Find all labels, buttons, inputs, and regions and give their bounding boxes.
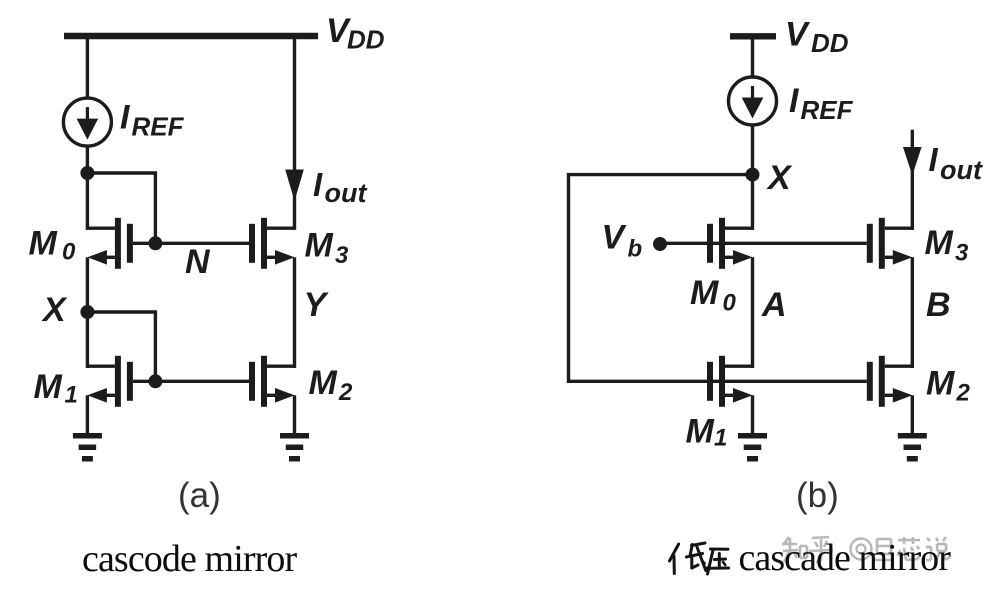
node label X (a) (41, 291, 68, 329)
svg-text:3: 3 (335, 242, 349, 269)
current source IREF (b) (729, 77, 777, 125)
svg-text:M: M (34, 368, 63, 406)
label M1 (34, 368, 78, 409)
watermark zhihu (782, 537, 950, 562)
wire rail to IREF (a) (86, 36, 89, 98)
arrow Iout (a) (285, 170, 304, 202)
svg-text:M: M (309, 364, 338, 402)
caption CJK diya (b) (670, 543, 729, 574)
svg-text:REF: REF (801, 95, 854, 125)
label M2 (b) (926, 365, 971, 407)
value label IREF (a) (120, 99, 185, 142)
wire X to M1 drain (a) (86, 312, 89, 368)
transistor M0 (b) (707, 218, 753, 269)
svg-text:V: V (785, 16, 811, 54)
junction dot N (a) (148, 236, 162, 250)
transistor M2 (249, 356, 295, 407)
current source IREF (a) (63, 98, 111, 146)
label M0 (b) (690, 274, 737, 317)
svg-text:I: I (313, 166, 323, 203)
power stub VDD (b) (730, 33, 776, 39)
node label Y (a) (304, 286, 330, 324)
svg-text:M: M (29, 225, 58, 263)
svg-text:I: I (120, 99, 131, 137)
wire X feedback loop to M1 M2 gates (b) (569, 175, 867, 382)
svg-text:0: 0 (62, 239, 76, 266)
arrow Iout (b) (903, 147, 922, 176)
wire X to M0 drain (b) (751, 175, 754, 230)
wire Iout to M3 drain (b) (911, 130, 914, 230)
caption (b) (796, 476, 839, 515)
svg-text:0: 0 (723, 290, 737, 317)
wire M1 source to ground (b) (751, 395, 754, 434)
caption cascade mirror (b) (739, 537, 952, 579)
svg-text:DD: DD (811, 28, 849, 58)
transistor M0 (87, 218, 132, 269)
wire VDD to IREF (b) (751, 36, 754, 78)
svg-text:V: V (602, 219, 628, 257)
svg-text:M: M (690, 274, 719, 312)
net label VDD (a) (326, 12, 385, 55)
svg-text:cascode mirror: cascode mirror (82, 538, 297, 580)
wire M0 source to X (a) (86, 257, 89, 313)
svg-text:Y: Y (304, 286, 330, 324)
wire M2 source to ground (a) (293, 395, 296, 434)
gate wire Vb to M0 M3 gates (b) (660, 242, 867, 245)
svg-text:X: X (766, 159, 793, 197)
ground under M2 (a) (280, 433, 309, 462)
ground under M1 (a) (73, 433, 102, 462)
junction dot below IREF (a) (80, 166, 94, 180)
svg-text:out: out (940, 155, 983, 185)
node X dot (a) (80, 305, 94, 319)
ground under M1 (b) (738, 433, 767, 462)
label Iout (a) (313, 166, 367, 208)
node X dot (b) (746, 168, 760, 182)
value label IREF (b) (789, 82, 854, 125)
label M3 (b) (925, 224, 970, 267)
wire diode-connect loop M0 gate (a) (87, 173, 155, 243)
svg-text:1: 1 (65, 382, 78, 409)
label M3 (305, 227, 350, 270)
wire X to M1 gate loop (a) (87, 312, 155, 381)
svg-text:M: M (925, 224, 954, 262)
svg-text:A: A (761, 286, 787, 324)
node label A (b) (761, 286, 787, 324)
svg-text:I: I (929, 141, 939, 178)
svg-text:(b): (b) (796, 476, 839, 515)
wire M3 source to M2 drain node Y (a) (293, 257, 296, 368)
label M2 (309, 364, 354, 406)
transistor M1 (b) (707, 356, 753, 407)
svg-text:I: I (789, 82, 800, 120)
transistor M1 (87, 356, 132, 407)
gate wire M1-M2 (a) (133, 380, 249, 383)
wire M3 source to M2 drain node B (b) (911, 257, 914, 368)
node label B (b) (926, 286, 951, 324)
svg-text:X: X (41, 291, 68, 329)
svg-text:B: B (926, 286, 951, 324)
wire M1 source to ground (a) (86, 395, 89, 434)
svg-text:3: 3 (955, 240, 969, 267)
wire IREF to node (a) (86, 146, 89, 175)
wire VDD to M3 drain with Iout (a) (293, 36, 296, 230)
svg-text:M: M (926, 365, 955, 403)
label Iout (b) (929, 141, 983, 185)
terminal dot Vb (b) (653, 237, 667, 251)
net label VDD (b) (785, 16, 849, 59)
wire M2 source to ground (b) (911, 395, 914, 434)
wire IREF to X (b) (751, 125, 754, 176)
svg-text:M: M (305, 227, 334, 265)
svg-text:DD: DD (347, 25, 385, 55)
wire node to M0 drain (a) (86, 173, 89, 230)
svg-text:REF: REF (132, 112, 185, 142)
svg-text:N: N (185, 243, 211, 281)
node label N (a) (185, 243, 211, 281)
svg-text:M: M (686, 413, 715, 451)
label M0 (29, 225, 77, 266)
ground under M2 (b) (898, 433, 927, 462)
svg-text:(a): (a) (178, 476, 221, 515)
transistor M3 (249, 218, 295, 269)
power rail VDD (a) (64, 33, 318, 39)
node label X (b) (766, 159, 793, 197)
svg-text:2: 2 (956, 380, 971, 407)
svg-text:1: 1 (714, 425, 727, 452)
gate wire node N (a) (133, 242, 249, 245)
caption cascode mirror (a) (82, 538, 297, 580)
svg-text:b: b (628, 236, 643, 263)
transistor M3 (b) (867, 218, 913, 269)
svg-text:cascade mirror: cascade mirror (739, 537, 952, 579)
bias label Vb (b) (602, 219, 643, 263)
junction dot M1 gate (a) (148, 374, 162, 388)
wire M0 source to M1 drain node A (b) (751, 257, 754, 368)
caption (a) (178, 476, 221, 515)
svg-text:out: out (325, 178, 368, 208)
label M1 (b) (686, 413, 728, 452)
svg-text:2: 2 (338, 379, 353, 406)
transistor M2 (b) (867, 356, 913, 407)
